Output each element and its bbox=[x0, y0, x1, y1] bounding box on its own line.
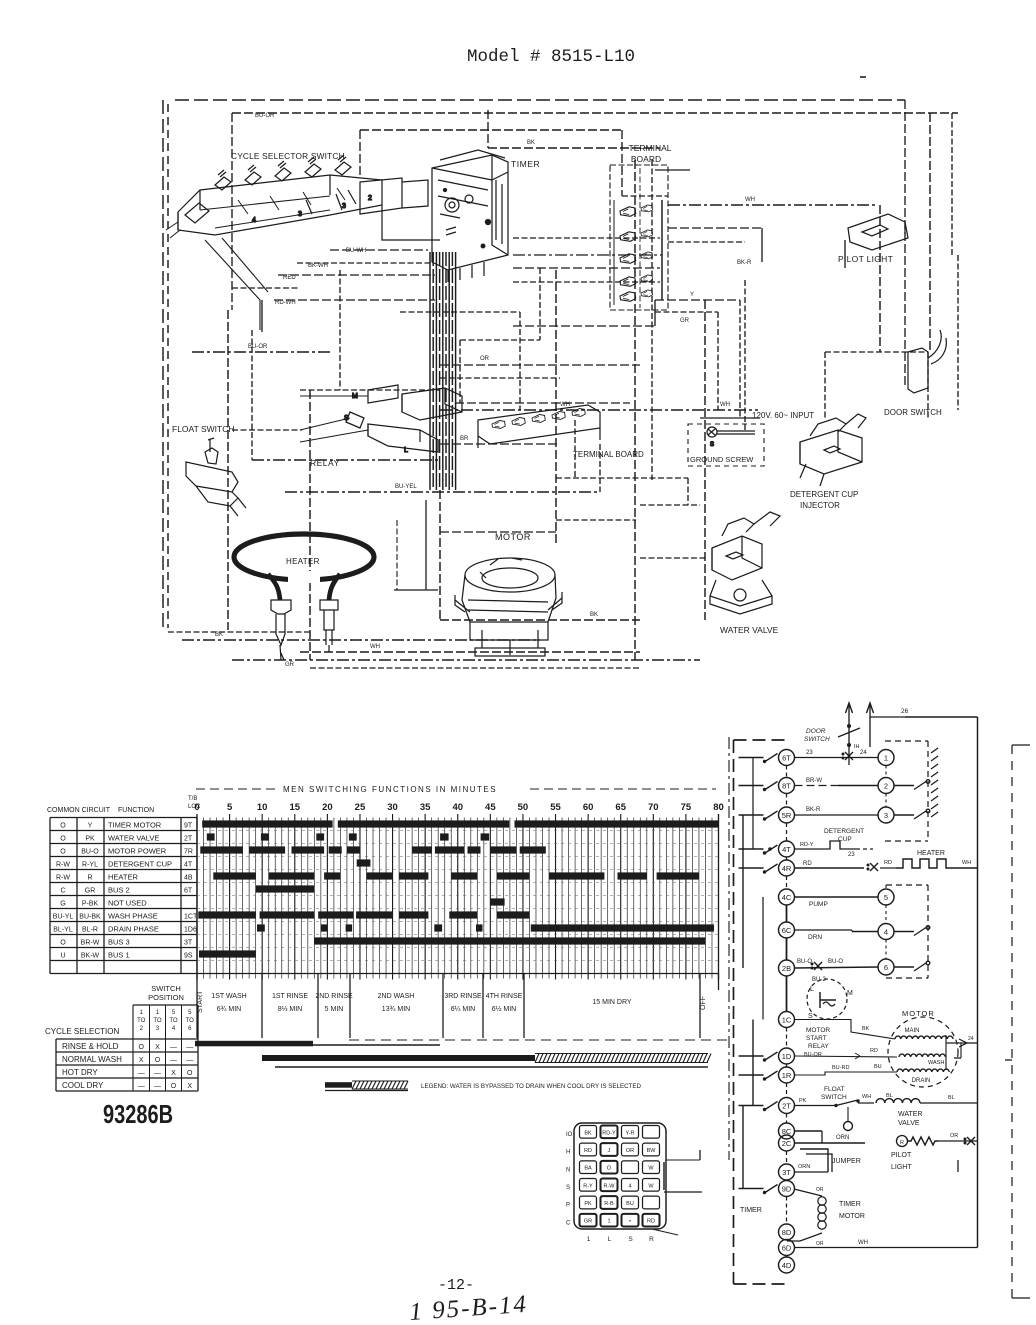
svg-text:PK: PK bbox=[85, 836, 95, 843]
svg-text:13¾ MIN: 13¾ MIN bbox=[382, 1006, 410, 1013]
svg-text:O: O bbox=[607, 1166, 612, 1172]
svg-text:CYCLE SELECTION: CYCLE SELECTION bbox=[45, 1027, 119, 1036]
svg-text:—: — bbox=[170, 1044, 177, 1051]
svg-text:S: S bbox=[628, 1236, 633, 1243]
svg-text:RD: RD bbox=[884, 860, 892, 866]
svg-text:WATER VALVE: WATER VALVE bbox=[720, 625, 779, 635]
svg-text:GROUND SCREW: GROUND SCREW bbox=[690, 455, 754, 464]
svg-text:1 95-B-14: 1 95-B-14 bbox=[409, 1291, 529, 1320]
svg-text:MOTOR: MOTOR bbox=[902, 1009, 935, 1018]
svg-text:BU-OR: BU-OR bbox=[255, 113, 275, 119]
svg-text:4: 4 bbox=[628, 1183, 631, 1189]
svg-text:BUS 1: BUS 1 bbox=[108, 951, 130, 960]
svg-text:DRN: DRN bbox=[808, 934, 822, 941]
svg-text:6T: 6T bbox=[184, 888, 193, 895]
svg-text:NORMAL WASH: NORMAL WASH bbox=[62, 1055, 122, 1064]
svg-text:55: 55 bbox=[550, 802, 561, 813]
svg-text:BU-OR: BU-OR bbox=[248, 344, 268, 350]
svg-text:20: 20 bbox=[322, 802, 333, 813]
svg-text:93286B: 93286B bbox=[103, 1099, 173, 1129]
svg-text:LOC: LOC bbox=[188, 804, 201, 810]
svg-text:P: P bbox=[566, 1203, 570, 1209]
svg-text:BL-YL: BL-YL bbox=[53, 927, 73, 934]
svg-text:BK: BK bbox=[215, 632, 223, 638]
svg-text:2: 2 bbox=[884, 781, 888, 790]
svg-text:BA: BA bbox=[584, 1166, 592, 1172]
svg-text:CYCLE SELECTOR SWITCH: CYCLE SELECTOR SWITCH bbox=[231, 151, 345, 161]
svg-text:DOOR SWITCH: DOOR SWITCH bbox=[884, 408, 942, 417]
svg-text:Model # 8515-L10: Model # 8515-L10 bbox=[467, 47, 635, 67]
svg-text:R-YL: R-YL bbox=[82, 862, 98, 869]
svg-text:L: L bbox=[810, 986, 814, 993]
svg-text:SWITCH: SWITCH bbox=[151, 984, 181, 993]
svg-text:MOTOR: MOTOR bbox=[495, 532, 531, 542]
svg-text:BU-O: BU-O bbox=[797, 959, 812, 965]
svg-text:1: 1 bbox=[140, 1010, 144, 1016]
svg-text:1D6: 1D6 bbox=[184, 927, 197, 934]
svg-text:5: 5 bbox=[884, 893, 888, 902]
svg-text:25: 25 bbox=[355, 802, 366, 813]
svg-text:Y: Y bbox=[690, 292, 694, 298]
svg-text:1: 1 bbox=[587, 1236, 591, 1243]
svg-text:DRAIN PHASE: DRAIN PHASE bbox=[108, 925, 159, 934]
svg-text:RD-Y: RD-Y bbox=[800, 842, 814, 848]
svg-text:HEATER: HEATER bbox=[108, 873, 138, 882]
svg-text:23: 23 bbox=[806, 750, 813, 756]
svg-text:TIMER: TIMER bbox=[740, 1207, 762, 1214]
svg-text:MOTOR: MOTOR bbox=[839, 1213, 865, 1220]
svg-text:—: — bbox=[186, 1044, 193, 1051]
svg-text:O: O bbox=[187, 1070, 193, 1077]
svg-text:4: 4 bbox=[172, 1026, 176, 1032]
svg-text:P-BK: P-BK bbox=[82, 901, 99, 908]
svg-text:6C: 6C bbox=[782, 926, 792, 935]
svg-text:5 MIN: 5 MIN bbox=[325, 1006, 344, 1013]
svg-text:DETERGENT CUP: DETERGENT CUP bbox=[108, 860, 172, 869]
svg-text:SWITCH: SWITCH bbox=[804, 736, 830, 743]
svg-text:RD: RD bbox=[803, 861, 812, 867]
svg-text:J: J bbox=[608, 1148, 611, 1154]
svg-text:BU-O: BU-O bbox=[828, 959, 843, 965]
svg-text:TERMINAL BOARD: TERMINAL BOARD bbox=[573, 450, 644, 459]
svg-text:RD-Y: RD-Y bbox=[602, 1130, 616, 1136]
svg-text:L: L bbox=[608, 1236, 612, 1243]
svg-text:MOTOR: MOTOR bbox=[806, 1027, 830, 1034]
svg-text:Y: Y bbox=[88, 823, 93, 830]
svg-text:1CT: 1CT bbox=[184, 914, 198, 921]
svg-text:-12-: -12- bbox=[438, 1277, 474, 1294]
svg-text:BK-W: BK-W bbox=[81, 953, 100, 960]
svg-text:BU: BU bbox=[874, 1064, 882, 1070]
svg-text:2T: 2T bbox=[782, 1101, 791, 1110]
svg-text:—: — bbox=[154, 1083, 161, 1090]
svg-text:120V. 60~ INPUT: 120V. 60~ INPUT bbox=[752, 411, 814, 420]
svg-text:RED: RED bbox=[283, 275, 296, 281]
svg-text:BL-R: BL-R bbox=[82, 927, 98, 934]
svg-text:WH: WH bbox=[720, 402, 730, 408]
svg-text:U: U bbox=[60, 953, 65, 960]
svg-text:0: 0 bbox=[719, 803, 724, 812]
svg-text:T/B: T/B bbox=[188, 796, 197, 802]
svg-text:DOOR: DOOR bbox=[806, 728, 826, 735]
svg-text:X: X bbox=[187, 1083, 192, 1090]
svg-text:RD: RD bbox=[584, 1148, 592, 1154]
svg-text:23: 23 bbox=[848, 852, 855, 858]
svg-text:10: 10 bbox=[257, 802, 268, 813]
svg-text:GR: GR bbox=[680, 318, 690, 324]
svg-text:R: R bbox=[900, 1140, 904, 1146]
svg-text:30: 30 bbox=[387, 802, 398, 813]
svg-text:R-W: R-W bbox=[56, 875, 70, 882]
svg-text:BU-RD: BU-RD bbox=[832, 1065, 849, 1071]
svg-text:OR: OR bbox=[626, 1148, 634, 1154]
svg-text:4T: 4T bbox=[184, 862, 193, 869]
svg-text:2: 2 bbox=[368, 195, 372, 202]
svg-text:DETERGENT: DETERGENT bbox=[824, 828, 864, 835]
svg-text:IO: IO bbox=[566, 1132, 573, 1138]
svg-text:6D: 6D bbox=[782, 1243, 792, 1252]
svg-text:X: X bbox=[155, 1044, 160, 1051]
svg-text:W: W bbox=[648, 1166, 654, 1172]
svg-text:N: N bbox=[566, 1167, 570, 1173]
svg-text:4B: 4B bbox=[184, 875, 193, 882]
svg-text:BUS 3: BUS 3 bbox=[108, 938, 130, 947]
svg-text:BK: BK bbox=[584, 1130, 592, 1136]
svg-text:BR: BR bbox=[460, 436, 469, 442]
svg-text:BK: BK bbox=[527, 140, 535, 146]
svg-text:RD: RD bbox=[647, 1219, 655, 1225]
svg-text:—: — bbox=[186, 1057, 193, 1064]
svg-text:1ST WASH: 1ST WASH bbox=[211, 993, 246, 1000]
svg-text:WH: WH bbox=[370, 644, 380, 650]
svg-text:PUMP: PUMP bbox=[809, 901, 828, 908]
svg-text:—: — bbox=[170, 1057, 177, 1064]
svg-text:•: • bbox=[629, 1219, 631, 1225]
svg-text:70: 70 bbox=[648, 802, 659, 813]
svg-text:24: 24 bbox=[968, 1036, 974, 1042]
svg-text:WH: WH bbox=[858, 1240, 868, 1246]
svg-text:WASH: WASH bbox=[928, 1060, 944, 1066]
svg-text:1: 1 bbox=[884, 753, 888, 762]
svg-text:NOT USED: NOT USED bbox=[108, 899, 147, 908]
svg-text:DETERGENT CUP: DETERGENT CUP bbox=[790, 490, 858, 499]
svg-text:INJECTOR: INJECTOR bbox=[800, 501, 840, 510]
svg-text:2B: 2B bbox=[782, 964, 791, 973]
svg-text:15: 15 bbox=[289, 802, 300, 813]
svg-text:BK: BK bbox=[590, 612, 598, 618]
svg-text:1D: 1D bbox=[782, 1052, 792, 1061]
svg-text:BK-WH: BK-WH bbox=[308, 263, 328, 269]
svg-text:BK-R: BK-R bbox=[806, 807, 821, 813]
svg-text:5: 5 bbox=[172, 1010, 176, 1016]
svg-text:1: 1 bbox=[607, 1219, 610, 1225]
svg-text:GR: GR bbox=[584, 1219, 592, 1225]
svg-text:3RD RINSE: 3RD RINSE bbox=[444, 993, 482, 1000]
svg-text:VALVE: VALVE bbox=[898, 1120, 920, 1127]
svg-text:TO: TO bbox=[137, 1018, 146, 1024]
svg-text:O: O bbox=[155, 1057, 161, 1064]
svg-text:RELAY: RELAY bbox=[808, 1043, 829, 1050]
svg-text:DRAIN: DRAIN bbox=[912, 1078, 931, 1084]
svg-text:35: 35 bbox=[420, 802, 431, 813]
svg-text:24: 24 bbox=[860, 750, 867, 756]
svg-text:O: O bbox=[60, 823, 66, 830]
svg-text:FUNCTION: FUNCTION bbox=[118, 807, 154, 814]
svg-text:LIGHT: LIGHT bbox=[891, 1164, 912, 1171]
svg-text:ORN: ORN bbox=[836, 1135, 849, 1141]
svg-text:START: START bbox=[806, 1035, 827, 1042]
svg-text:R-Y: R-Y bbox=[583, 1183, 593, 1189]
svg-text:3T: 3T bbox=[184, 940, 193, 947]
svg-text:X: X bbox=[171, 1070, 176, 1077]
svg-text:FLOAT SWITCH: FLOAT SWITCH bbox=[172, 424, 235, 434]
svg-text:O: O bbox=[60, 836, 66, 843]
svg-text:WASH PHASE: WASH PHASE bbox=[108, 912, 158, 921]
svg-text:7R: 7R bbox=[184, 849, 193, 856]
svg-text:RD: RD bbox=[870, 1048, 878, 1054]
svg-text:LEGEND: WATER IS BYPASSED TO: LEGEND: WATER IS BYPASSED TO DRAIN WHEN … bbox=[421, 1083, 641, 1090]
svg-text:2: 2 bbox=[140, 1026, 144, 1032]
svg-text:BU-YEL: BU-YEL bbox=[395, 484, 417, 490]
svg-text:BK: BK bbox=[862, 1026, 870, 1032]
svg-text:COOL DRY: COOL DRY bbox=[62, 1081, 104, 1090]
svg-text:ORN: ORN bbox=[798, 1164, 810, 1170]
svg-text:3: 3 bbox=[156, 1026, 160, 1032]
svg-text:H: H bbox=[566, 1150, 570, 1156]
svg-text:BU-OR: BU-OR bbox=[804, 1052, 822, 1058]
svg-text:MEN SWITCHING FUNCTIONS IN MIN: MEN SWITCHING FUNCTIONS IN MINUTES bbox=[283, 785, 497, 794]
svg-text:3T: 3T bbox=[782, 1168, 791, 1177]
svg-text:4D: 4D bbox=[782, 1261, 792, 1270]
svg-text:6: 6 bbox=[884, 963, 888, 972]
svg-text:COMMON CIRCUIT: COMMON CIRCUIT bbox=[47, 807, 111, 814]
svg-text:4C: 4C bbox=[782, 893, 792, 902]
svg-text:BU-BK: BU-BK bbox=[79, 914, 101, 921]
svg-text:4T: 4T bbox=[782, 845, 791, 854]
svg-text:8D: 8D bbox=[782, 1228, 792, 1237]
svg-text:S: S bbox=[710, 442, 714, 448]
svg-text:6: 6 bbox=[188, 1026, 192, 1032]
svg-text:60: 60 bbox=[583, 802, 594, 813]
svg-text:1ST RINSE: 1ST RINSE bbox=[272, 993, 308, 1000]
svg-text:R-B: R-B bbox=[604, 1201, 614, 1207]
svg-text:BU: BU bbox=[626, 1201, 634, 1207]
svg-text:5R: 5R bbox=[782, 811, 792, 820]
svg-text:WH: WH bbox=[745, 197, 755, 203]
svg-text:40: 40 bbox=[452, 802, 463, 813]
svg-text:POSITION: POSITION bbox=[148, 993, 184, 1002]
svg-text:OR: OR bbox=[480, 356, 490, 362]
svg-text:50: 50 bbox=[518, 802, 529, 813]
svg-text:M: M bbox=[847, 990, 853, 997]
svg-text:HOT DRY: HOT DRY bbox=[62, 1068, 98, 1077]
svg-text:9D: 9D bbox=[782, 1184, 792, 1193]
svg-text:TO: TO bbox=[169, 1018, 178, 1024]
svg-text:9S: 9S bbox=[184, 953, 193, 960]
svg-text:OR: OR bbox=[950, 1133, 958, 1139]
svg-text:PK: PK bbox=[799, 1098, 807, 1104]
svg-text:BR-W: BR-W bbox=[81, 940, 100, 947]
svg-text:2C: 2C bbox=[782, 1139, 792, 1148]
svg-text:WH: WH bbox=[862, 1094, 871, 1100]
svg-text:BUS 2: BUS 2 bbox=[108, 886, 130, 895]
svg-text:L: L bbox=[404, 447, 408, 454]
svg-text:BOARD: BOARD bbox=[631, 154, 661, 164]
svg-text:BU-YL: BU-YL bbox=[53, 914, 74, 921]
svg-text:WATER VALVE: WATER VALVE bbox=[108, 834, 159, 843]
svg-text:BU-WH: BU-WH bbox=[346, 248, 366, 254]
svg-text:4: 4 bbox=[884, 927, 888, 936]
svg-text:R: R bbox=[649, 1236, 654, 1243]
svg-text:TERMINAL: TERMINAL bbox=[629, 143, 672, 153]
svg-text:MAIN: MAIN bbox=[905, 1028, 920, 1034]
svg-text:PILOT LIGHT: PILOT LIGHT bbox=[838, 254, 893, 264]
svg-text:MOTOR POWER: MOTOR POWER bbox=[108, 847, 167, 856]
svg-text:TIMER MOTOR: TIMER MOTOR bbox=[108, 821, 162, 830]
svg-text:6¼ MIN: 6¼ MIN bbox=[451, 1006, 476, 1013]
svg-text:26: 26 bbox=[901, 708, 909, 715]
svg-text:—: — bbox=[138, 1083, 145, 1090]
svg-text:5: 5 bbox=[188, 1010, 192, 1016]
svg-text:R: R bbox=[87, 875, 92, 882]
svg-text:SWITCH: SWITCH bbox=[821, 1094, 847, 1101]
svg-text:65: 65 bbox=[615, 802, 626, 813]
svg-text:—: — bbox=[154, 1070, 161, 1077]
svg-text:15 MIN DRY: 15 MIN DRY bbox=[592, 999, 631, 1006]
svg-text:2ND RINSE: 2ND RINSE bbox=[315, 993, 353, 1000]
svg-text:S: S bbox=[566, 1185, 570, 1191]
svg-text:PILOT: PILOT bbox=[891, 1152, 912, 1159]
svg-text:IH: IH bbox=[854, 744, 860, 750]
svg-text:FLOAT: FLOAT bbox=[824, 1086, 844, 1093]
svg-text:2ND WASH: 2ND WASH bbox=[378, 993, 415, 1000]
svg-text:BR-W: BR-W bbox=[806, 778, 822, 784]
svg-text:WH: WH bbox=[962, 860, 971, 866]
svg-text:OR: OR bbox=[816, 1241, 824, 1247]
svg-text:GR: GR bbox=[85, 888, 96, 895]
svg-text:6T: 6T bbox=[782, 753, 791, 762]
svg-text:C: C bbox=[566, 1220, 571, 1226]
svg-text:WATER: WATER bbox=[898, 1111, 923, 1118]
svg-text:TIMER: TIMER bbox=[511, 159, 540, 169]
svg-text:6½ MIN: 6½ MIN bbox=[492, 1005, 517, 1013]
svg-text:R-W: R-W bbox=[604, 1183, 616, 1189]
svg-text:1R: 1R bbox=[782, 1071, 792, 1080]
svg-text:O: O bbox=[139, 1044, 145, 1051]
svg-text:OFF: OFF bbox=[700, 996, 707, 1010]
svg-text:PK: PK bbox=[584, 1201, 592, 1207]
svg-text:8T: 8T bbox=[782, 781, 791, 790]
svg-text:R-W: R-W bbox=[56, 862, 70, 869]
svg-text:4: 4 bbox=[252, 217, 256, 224]
svg-text:C: C bbox=[60, 888, 65, 895]
svg-text:W: W bbox=[648, 1183, 654, 1189]
svg-text:RELAY: RELAY bbox=[310, 458, 340, 468]
svg-text:BL: BL bbox=[886, 1093, 893, 1099]
svg-text:1: 1 bbox=[156, 1010, 160, 1016]
svg-text:3: 3 bbox=[884, 811, 888, 820]
svg-text:8⅓ MIN: 8⅓ MIN bbox=[278, 1006, 303, 1013]
svg-text:4R: 4R bbox=[782, 864, 792, 873]
svg-text:Y-R: Y-R bbox=[626, 1130, 635, 1136]
svg-text:4TH RINSE: 4TH RINSE bbox=[486, 993, 523, 1000]
svg-text:O: O bbox=[60, 940, 66, 947]
svg-text:RD-WH: RD-WH bbox=[275, 300, 296, 306]
svg-text:TO: TO bbox=[186, 1018, 195, 1024]
svg-text:X: X bbox=[139, 1057, 144, 1064]
svg-text:BK-R: BK-R bbox=[737, 260, 752, 266]
svg-text:6¾ MIN: 6¾ MIN bbox=[217, 1006, 242, 1013]
svg-text:—: — bbox=[138, 1070, 145, 1077]
svg-text:3: 3 bbox=[342, 203, 346, 210]
svg-text:RINSE & HOLD: RINSE & HOLD bbox=[62, 1042, 119, 1051]
svg-text:OR: OR bbox=[816, 1187, 824, 1193]
svg-text:TO: TO bbox=[153, 1018, 162, 1024]
svg-text:5: 5 bbox=[227, 802, 233, 813]
svg-text:BU-O: BU-O bbox=[81, 849, 99, 856]
svg-text:HEATER: HEATER bbox=[917, 850, 945, 857]
svg-text:9T: 9T bbox=[184, 823, 193, 830]
svg-text:O: O bbox=[60, 849, 66, 856]
svg-text:75: 75 bbox=[681, 802, 692, 813]
svg-text:2T: 2T bbox=[184, 836, 193, 843]
svg-text:JUMPER: JUMPER bbox=[832, 1158, 861, 1165]
svg-text:G: G bbox=[60, 901, 65, 908]
svg-text:GR: GR bbox=[285, 662, 295, 668]
svg-text:TIMER: TIMER bbox=[839, 1201, 861, 1208]
svg-text:45: 45 bbox=[485, 802, 496, 813]
svg-text:BW: BW bbox=[647, 1148, 657, 1154]
svg-text:O: O bbox=[171, 1083, 177, 1090]
svg-text:BL: BL bbox=[948, 1095, 955, 1101]
svg-text:1C: 1C bbox=[782, 1015, 792, 1024]
svg-text:HEATER: HEATER bbox=[286, 557, 320, 566]
